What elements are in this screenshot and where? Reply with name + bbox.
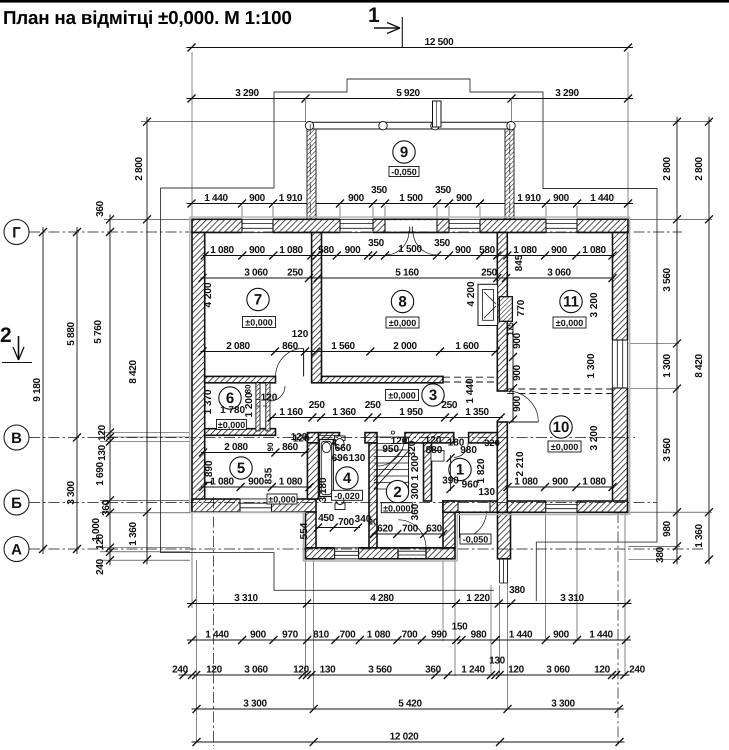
svg-text:240: 240 [629, 665, 646, 676]
svg-text:4 280: 4 280 [370, 593, 394, 604]
svg-text:980: 980 [471, 630, 488, 641]
svg-text:80: 80 [244, 384, 253, 393]
svg-text:120: 120 [261, 393, 278, 404]
svg-text:900: 900 [551, 245, 568, 256]
svg-text:900: 900 [553, 630, 570, 641]
room 4 number circle [336, 467, 358, 489]
svg-text:4: 4 [331, 438, 337, 449]
svg-text:120: 120 [95, 533, 106, 550]
svg-text:130: 130 [320, 665, 337, 676]
svg-text:5: 5 [237, 460, 245, 477]
extension line bld bl corner down [191, 511, 193, 608]
wall H3 seg3 [405, 433, 454, 443]
svg-text:Б: Б [11, 495, 22, 512]
room 3 number circle [422, 384, 444, 406]
svg-text:860: 860 [282, 341, 299, 352]
svg-text:2 800: 2 800 [694, 157, 705, 181]
door door porch entry [460, 511, 487, 538]
washbasin room 4 [335, 436, 346, 449]
svg-text:7: 7 [254, 292, 262, 309]
door door hall-room2 [377, 439, 404, 466]
wall room8/3 divider H1b [322, 376, 444, 382]
svg-text:3 560: 3 560 [662, 438, 673, 462]
svg-text:390: 390 [442, 475, 459, 486]
svg-text:150: 150 [452, 622, 469, 633]
svg-text:700: 700 [340, 630, 357, 641]
axis marker Б [4, 490, 29, 515]
svg-text:580: 580 [479, 245, 496, 256]
svg-text:700: 700 [338, 517, 355, 528]
svg-text:3 200: 3 200 [589, 292, 600, 317]
wall bottom-right exterior [443, 501, 628, 512]
svg-text:1 360: 1 360 [694, 524, 705, 548]
extension line veranda right up [511, 100, 513, 122]
door hinge dot [391, 431, 394, 434]
svg-text:10: 10 [553, 419, 570, 436]
svg-text:120: 120 [206, 665, 223, 676]
svg-text:1 080: 1 080 [513, 245, 537, 256]
svg-text:1 690: 1 690 [95, 462, 106, 486]
svg-text:±0,000: ±0,000 [383, 503, 410, 513]
section marker 1 [368, 4, 402, 47]
extension line veranda top to left col [141, 121, 306, 123]
axis line veranda right wall axis [509, 124, 511, 219]
wall bottom-left exterior [192, 499, 316, 512]
dim right col1 [673, 117, 681, 565]
extension line window jamb 449 [448, 206, 450, 218]
svg-text:250: 250 [287, 268, 304, 279]
svg-text:2 800: 2 800 [662, 157, 673, 181]
svg-text:240: 240 [95, 558, 106, 575]
svg-text:В: В [11, 430, 22, 447]
room 11 number circle [560, 290, 582, 312]
svg-text:450: 450 [318, 513, 335, 524]
dim top rooms widths row [201, 252, 617, 260]
svg-text:900: 900 [248, 477, 265, 488]
door opening veranda-room8 [385, 219, 437, 232]
room 8 number circle [391, 290, 413, 312]
wall divider V2 lower [497, 422, 507, 512]
svg-text:360: 360 [95, 200, 106, 217]
window top wall W3 [449, 219, 480, 234]
dim top third row [187, 200, 634, 208]
wall tambour bottom [306, 548, 456, 559]
window tambour window W6a [335, 547, 359, 560]
extension line left tick 500.3 [100, 499, 190, 501]
built-in closet room 1 [431, 450, 444, 461]
dim left col4 [143, 117, 151, 565]
level mark level 4 [332, 490, 363, 501]
extension line bld top-left to cols [104, 218, 191, 220]
dim top second row [187, 95, 634, 103]
window top wall W1 [242, 219, 273, 234]
svg-text:2: 2 [393, 484, 401, 501]
svg-text:1 080: 1 080 [514, 477, 538, 488]
svg-text:±0,000: ±0,000 [218, 420, 245, 430]
dim left col3 [106, 214, 114, 565]
svg-text:2 000: 2 000 [393, 341, 417, 352]
dim left 9180 [39, 227, 47, 554]
extension line left tick 551.8 [100, 551, 190, 553]
door leafs veranda [410, 227, 413, 234]
svg-text:900: 900 [249, 245, 266, 256]
level mark level 9 [389, 167, 419, 178]
small vertical dim room1 [447, 454, 455, 493]
dim room row 278 [199, 274, 617, 282]
svg-text:±0,000: ±0,000 [389, 318, 416, 328]
svg-text:±0,000: ±0,000 [388, 391, 415, 401]
svg-text:1 560: 1 560 [331, 341, 355, 352]
svg-text:900: 900 [345, 245, 362, 256]
svg-text:700: 700 [402, 630, 419, 641]
svg-text:1 440: 1 440 [204, 193, 228, 204]
svg-text:900: 900 [456, 193, 473, 204]
extension line right tick 343.4 [629, 342, 680, 344]
svg-text:5 880: 5 880 [66, 322, 77, 346]
extension line tambour right down [442, 560, 444, 641]
svg-text:120: 120 [508, 665, 525, 676]
extension line left tick 432.6 [100, 432, 190, 434]
level mark level 3 [386, 390, 419, 401]
svg-text:1 240: 1 240 [461, 665, 485, 676]
svg-text:580: 580 [318, 245, 335, 256]
svg-text:1 350: 1 350 [465, 407, 489, 418]
axis marker В [4, 425, 29, 450]
svg-text:3 560: 3 560 [368, 665, 392, 676]
veranda top wall [307, 122, 514, 129]
svg-text:350: 350 [435, 185, 452, 196]
svg-text:12 020: 12 020 [390, 732, 420, 743]
axis line vertical axis left [213, 497, 215, 746]
level mark level porch [460, 534, 491, 545]
level mark level 6 [217, 420, 247, 431]
chimney on veranda [433, 101, 442, 127]
svg-text:1 500: 1 500 [399, 193, 423, 204]
dim room10 widths [504, 483, 617, 491]
wall room7/6 divider H1a [205, 376, 276, 382]
extension line window jamb 437 [436, 206, 438, 218]
svg-text:130: 130 [478, 487, 495, 498]
svg-text:3 060: 3 060 [546, 665, 570, 676]
svg-text:2: 2 [0, 324, 12, 347]
svg-text:770: 770 [516, 299, 527, 316]
level mark level 2 [381, 503, 412, 514]
window right wall W8 [612, 340, 629, 388]
svg-text:3 300: 3 300 [66, 481, 77, 505]
toilet room 4 [335, 493, 345, 510]
svg-text:1 160: 1 160 [279, 407, 303, 418]
svg-text:±0,000: ±0,000 [556, 318, 583, 328]
svg-text:3 560: 3 560 [662, 268, 673, 292]
svg-text:320: 320 [407, 440, 418, 457]
svg-text:±0,000: ±0,000 [245, 318, 272, 328]
svg-text:3 300: 3 300 [243, 699, 267, 710]
axis line axis В [29, 437, 635, 439]
svg-text:2 080: 2 080 [226, 341, 250, 352]
wall H3 seg4 [469, 433, 498, 443]
svg-text:±0,000: ±0,000 [268, 495, 295, 505]
svg-text:3 180: 3 180 [318, 477, 329, 502]
dim left col2 [73, 227, 81, 554]
svg-text:2 800: 2 800 [134, 157, 145, 181]
veranda post post2 [379, 122, 387, 130]
wall room8/11 divider V2 upper [497, 233, 507, 392]
svg-text:120: 120 [594, 665, 611, 676]
svg-text:5 160: 5 160 [395, 268, 419, 279]
svg-text:835: 835 [264, 467, 275, 484]
svg-text:120: 120 [293, 665, 310, 676]
door door closet [270, 386, 285, 401]
svg-text:1 300: 1 300 [662, 354, 673, 378]
svg-text:380: 380 [509, 585, 526, 596]
dim bottom row5 [192, 738, 625, 746]
svg-text:-0,050: -0,050 [463, 535, 489, 545]
svg-text:350: 350 [371, 185, 388, 196]
axis marker Г [4, 220, 29, 245]
dim top 12500 [187, 44, 634, 52]
dim hall row 417 [268, 414, 505, 422]
extension line left tick 512.8 [100, 512, 190, 514]
window bottom-left wall W5 [240, 498, 272, 513]
veranda post post3 [431, 122, 439, 130]
svg-text:3 060: 3 060 [244, 665, 268, 676]
svg-text:1 080: 1 080 [279, 245, 303, 256]
wall room6/5 divider H2 [205, 429, 276, 436]
axis marker А [4, 537, 29, 562]
extension line tambour left down [305, 560, 307, 676]
extension line top-left corner up [191, 52, 193, 218]
svg-text:120: 120 [391, 436, 408, 447]
svg-text:130: 130 [489, 656, 506, 667]
stairs room 2 [374, 437, 409, 492]
svg-text:1 200: 1 200 [244, 392, 255, 417]
svg-text:900: 900 [348, 193, 365, 204]
svg-text:9 180: 9 180 [32, 378, 43, 402]
svg-text:12 500: 12 500 [425, 37, 455, 48]
svg-text:1 200: 1 200 [410, 455, 421, 480]
svg-text:4 200: 4 200 [466, 281, 477, 306]
room 7 number circle [247, 288, 269, 310]
extension line window jamb 242 [241, 206, 243, 218]
svg-text:240: 240 [172, 665, 189, 676]
svg-text:250: 250 [481, 268, 498, 279]
svg-text:300: 300 [410, 482, 421, 499]
closet shelving room 6 dashed [256, 400, 270, 407]
svg-text:3 290: 3 290 [555, 88, 579, 99]
svg-text:8: 8 [398, 294, 406, 311]
svg-text:1 360: 1 360 [332, 407, 356, 418]
opening room8-room3 (dashed) [443, 377, 497, 382]
door door to room4 [319, 438, 341, 460]
door door tambour back [398, 520, 426, 548]
extension line window jamb down2 [576, 513, 578, 641]
extension line right tick low 512.2 [629, 511, 713, 513]
extension line right tick 388.6 [629, 388, 680, 390]
extension line window jamb 273 [272, 206, 274, 218]
wall tambour left [306, 512, 317, 559]
svg-text:1 440: 1 440 [590, 193, 614, 204]
extension line porch tick [490, 585, 492, 676]
level mark level 10 [548, 441, 581, 452]
wall tambour right [443, 501, 455, 548]
svg-text:130: 130 [349, 453, 366, 464]
svg-text:1 950: 1 950 [399, 407, 423, 418]
opening room11-room10 (dashed) [507, 389, 612, 394]
window top wall W2 [340, 219, 373, 234]
svg-text:350: 350 [368, 238, 385, 249]
svg-text:900: 900 [249, 193, 266, 204]
svg-text:175: 175 [506, 322, 515, 336]
svg-text:2 080: 2 080 [224, 442, 248, 453]
svg-text:4 200: 4 200 [203, 282, 214, 307]
extension line left tick 560.2 [100, 559, 190, 561]
roof eave outline [161, 79, 658, 601]
flue block in wall (hatched) [499, 297, 512, 322]
svg-text:960: 960 [462, 480, 479, 491]
extension line window jamb 480 [479, 206, 481, 218]
svg-text:120: 120 [97, 424, 108, 441]
dim tambour widths [370, 530, 447, 538]
plaster offset lines [190, 217, 630, 561]
porch steps [500, 559, 508, 583]
level mark level 8 [386, 317, 419, 328]
svg-text:970: 970 [282, 630, 299, 641]
svg-text:3 310: 3 310 [560, 593, 584, 604]
svg-text:250: 250 [441, 400, 458, 411]
extension line bld br corner down [624, 513, 626, 676]
dim bottom row1 [187, 600, 632, 608]
dim corridor 900s [509, 322, 517, 424]
H3 thin lintel [319, 435, 340, 437]
door opening tambour back [398, 548, 426, 559]
svg-text:5 420: 5 420 [398, 699, 422, 710]
svg-text:700: 700 [402, 524, 419, 535]
svg-text:1 440: 1 440 [465, 378, 476, 403]
wall H3 seg0 [307, 433, 318, 443]
wall top exterior [192, 219, 628, 232]
level mark level 11 [553, 317, 586, 328]
dim room5 top [199, 449, 309, 457]
svg-text:5 760: 5 760 [93, 320, 104, 344]
svg-text:3: 3 [429, 387, 437, 404]
dim room row 354 [199, 348, 500, 356]
wall room4/2 divider V3 [369, 443, 377, 548]
window top wall W4 [546, 219, 577, 234]
svg-text:900: 900 [250, 630, 267, 641]
extension line left tick 437 [100, 436, 190, 438]
section marker 2 [0, 324, 32, 363]
room 6 number circle [219, 387, 241, 409]
svg-text:Г: Г [12, 225, 21, 242]
veranda post post4 [507, 122, 515, 130]
wall right exterior [613, 233, 628, 513]
svg-text:2 210: 2 210 [515, 451, 526, 476]
door veranda double door right [413, 231, 437, 255]
svg-text:1 890: 1 890 [204, 460, 215, 485]
wall veranda left [307, 129, 316, 219]
svg-text:900: 900 [553, 193, 570, 204]
svg-text:3 060: 3 060 [244, 268, 268, 279]
svg-text:1 080: 1 080 [210, 245, 234, 256]
svg-text:1 080: 1 080 [279, 477, 303, 488]
svg-text:11: 11 [563, 294, 579, 311]
svg-text:4: 4 [343, 470, 352, 487]
svg-text:1 600: 1 600 [455, 341, 479, 352]
svg-text:360: 360 [410, 503, 421, 520]
svg-text:1 360: 1 360 [128, 522, 139, 546]
svg-text:250: 250 [365, 400, 382, 411]
extension line window jamb 340 [339, 206, 341, 218]
svg-text:1: 1 [368, 4, 380, 27]
extension line bld top-right to cols [629, 218, 713, 220]
svg-text:810: 810 [313, 630, 330, 641]
room 5 number circle [230, 457, 252, 479]
veranda post post1 [305, 122, 313, 130]
extension line left tick 547.6 [100, 547, 190, 549]
wall H3 seg2 [365, 433, 377, 443]
svg-text:-0,020: -0,020 [334, 491, 360, 501]
wall room7/8 divider V1 [312, 233, 322, 383]
level mark level 7 [243, 317, 276, 328]
level mark level 5 [267, 494, 297, 505]
extension line porch right down [507, 560, 509, 708]
svg-text:900: 900 [512, 395, 523, 412]
svg-text:360: 360 [425, 665, 442, 676]
svg-text:900: 900 [552, 477, 569, 488]
svg-text:-0,050: -0,050 [391, 167, 417, 177]
extension line right tick low 546.3 [629, 545, 681, 547]
svg-text:1 780: 1 780 [220, 405, 245, 416]
axis line axis Г [29, 231, 682, 233]
dim bottom row4 [192, 705, 624, 713]
room 9 number circle [393, 141, 415, 163]
flue shaft between rooms 8 and 11 [478, 284, 498, 325]
bathtub room 4 [320, 440, 334, 497]
extension line left tick 441.5 [100, 441, 190, 443]
svg-text:554: 554 [299, 522, 310, 539]
svg-text:130: 130 [97, 444, 108, 461]
extension line axis b4 left [313, 560, 315, 708]
svg-text:20: 20 [368, 517, 378, 527]
svg-text:900: 900 [455, 245, 472, 256]
svg-text:1 910: 1 910 [517, 193, 541, 204]
svg-text:1 500: 1 500 [398, 244, 422, 255]
extension line bld bl inner down [196, 560, 198, 741]
svg-text:А: А [11, 542, 22, 559]
svg-text:120: 120 [293, 434, 310, 445]
svg-text:1 440: 1 440 [509, 630, 533, 641]
door veranda double door left [385, 231, 409, 255]
dim bottom row3 [179, 671, 630, 679]
svg-text:360: 360 [101, 499, 112, 516]
door door hall-room10 [507, 391, 538, 422]
svg-text:3 290: 3 290 [235, 88, 259, 99]
svg-text:900: 900 [512, 364, 523, 381]
svg-text:1 080: 1 080 [582, 477, 606, 488]
svg-text:8 420: 8 420 [694, 354, 705, 378]
room 10 number circle [550, 416, 572, 438]
svg-text:990: 990 [431, 630, 448, 641]
room 2 number circle [386, 480, 408, 502]
axis line axis Б [29, 502, 657, 504]
room 1 number circle [449, 458, 471, 480]
svg-text:5 920: 5 920 [396, 88, 420, 99]
svg-text:120: 120 [292, 329, 309, 340]
svg-text:630: 630 [426, 524, 443, 535]
extension line tambour right outer down [454, 560, 456, 676]
extension line window jamb down [545, 513, 547, 641]
svg-text:696: 696 [332, 453, 349, 464]
